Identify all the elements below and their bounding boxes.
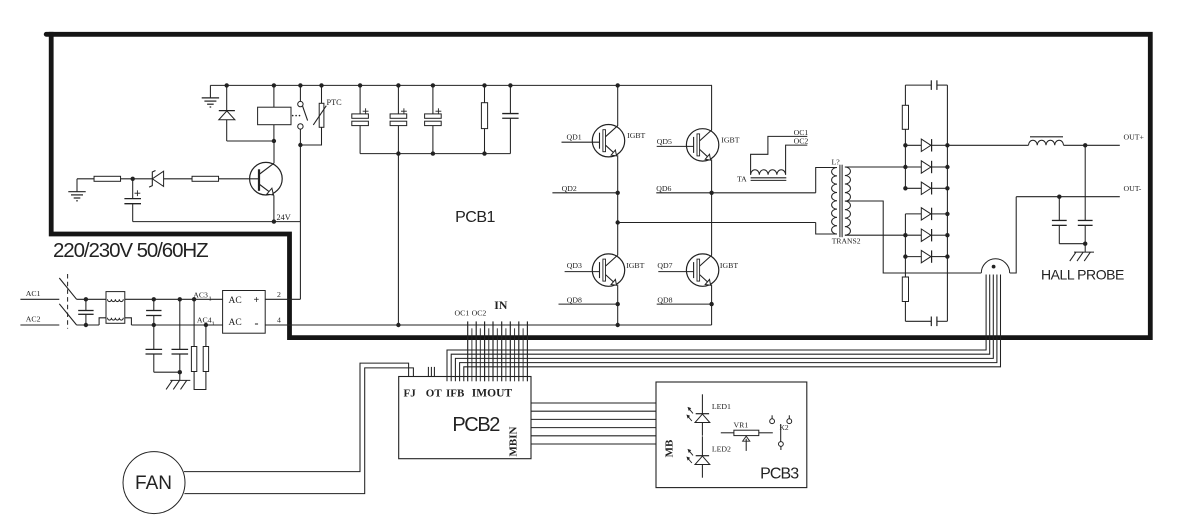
svg-text:FJ: FJ <box>404 387 417 399</box>
junction dot D5 right <box>945 212 949 216</box>
wire IN bus line 11 <box>509 321 511 381</box>
wire neg rail down to DC- bus <box>397 154 399 325</box>
wire QD3 emitter down (left leg) <box>617 285 619 325</box>
svg-text:1: 1 <box>209 296 212 303</box>
wire MBIN signal 3 <box>531 418 656 420</box>
svg-text:OC2: OC2 <box>794 137 809 146</box>
label OC1 (TA) <box>794 128 809 137</box>
svg-text:-: - <box>255 316 259 330</box>
svg-text:OC1: OC1 <box>455 309 470 318</box>
svg-text:QD2: QD2 <box>562 184 577 193</box>
wire IN bus line 6 <box>488 328 490 381</box>
wire -24V rail <box>133 221 301 223</box>
transistor QD7 (IGBT bottom-right) <box>657 254 738 286</box>
junction dot cap ground link <box>1083 242 1087 246</box>
hall probe sensor <box>981 259 1009 273</box>
svg-text:AC4: AC4 <box>197 316 212 325</box>
junction dot AC1/C13 <box>178 297 182 301</box>
wire QD5 collector to top rail corner <box>710 85 713 130</box>
svg-text:HALL PROBE: HALL PROBE <box>1041 266 1124 282</box>
svg-text:QD5: QD5 <box>657 137 672 146</box>
svg-text:TRANS2: TRANS2 <box>832 236 861 245</box>
wire main positive top rail <box>210 84 711 86</box>
label MBIN <box>508 426 520 456</box>
diode D4 <box>905 182 947 194</box>
relay contact S1 (switch with link dots) <box>292 85 308 145</box>
wire IN bus line 3 <box>475 321 477 381</box>
diode D1 (relay coil clamp) <box>219 85 274 141</box>
svg-text:OT: OT <box>426 387 443 399</box>
wire IN bus line 2 <box>471 328 473 381</box>
PTC inrush thermistor <box>300 85 326 145</box>
junction dot top rail / C4 <box>508 83 512 87</box>
svg-text:AC: AC <box>229 318 242 328</box>
capacitor C11 (X-cap 2) <box>146 299 161 325</box>
svg-text:AC1: AC1 <box>26 289 41 298</box>
junction dot left leg / DC- bus <box>616 323 620 327</box>
wire AC1 filtered line <box>125 298 223 300</box>
label IFB <box>446 387 465 399</box>
svg-text:LED1: LED1 <box>712 402 731 411</box>
label HALL PROBE <box>1041 266 1124 282</box>
label OC2 (TA) <box>794 137 809 146</box>
wire rectifier + pin 2 <box>265 290 300 300</box>
stub OT pins <box>428 367 434 377</box>
label AC4 with pin 1 <box>197 316 215 328</box>
junction dot top rail / PTC <box>319 83 323 87</box>
junction dot Y-cap ground node <box>178 370 182 374</box>
label L? <box>832 158 841 167</box>
svg-text:VR1: VR1 <box>734 420 749 429</box>
diode D2 <box>905 139 947 151</box>
ground (24V circuit earth symbol) <box>68 179 85 201</box>
svg-text:24V: 24V <box>277 213 291 222</box>
wire IN bus line 8 <box>496 328 498 381</box>
switch mechanical link (dashed) <box>67 274 69 329</box>
junction dot top rail / contact <box>298 83 302 87</box>
svg-text:FAN: FAN <box>135 473 172 494</box>
wire hall probe signal 2 <box>451 275 990 382</box>
svg-text:MB: MB <box>664 439 676 457</box>
svg-text:PCB3: PCB3 <box>760 465 799 482</box>
svg-text:IGBT: IGBT <box>626 261 644 270</box>
label AC3 with pin 1 <box>193 290 212 302</box>
bleeder resistor R3 <box>481 85 487 153</box>
capacitor C13 (Y-cap from AC1) <box>172 299 189 372</box>
resistor R6 (MOV from AC1) <box>191 299 196 371</box>
wire OUT- down to hall line <box>1010 197 1017 273</box>
label FJ <box>404 387 417 399</box>
junction dot neg rail / R3 <box>482 151 486 155</box>
label AC2 <box>26 315 41 324</box>
label IMOUT <box>472 387 513 399</box>
fan motor FAN <box>123 452 185 514</box>
wire AC2 input <box>20 324 59 326</box>
label 220/230V 50/60HZ <box>53 239 208 262</box>
wire IN bus line 10 <box>505 328 507 381</box>
resistor R1 <box>94 176 121 181</box>
junction dot contact-PTC bottom node <box>298 143 302 147</box>
svg-text:QD1: QD1 <box>567 133 582 142</box>
wire TRANS2 secondary bottom to rectifier <box>845 234 906 236</box>
transistor QD5 (IGBT top-right) <box>657 129 740 161</box>
zener diode ZD1 <box>149 171 192 188</box>
svg-text:AC2: AC2 <box>26 315 41 324</box>
diode D7 <box>905 235 947 277</box>
svg-text:OUT+: OUT+ <box>1124 133 1145 142</box>
ground (output chassis ground) <box>1070 252 1094 261</box>
wire AC2 filtered line <box>131 324 222 326</box>
switch SW1a (mains switch pole 1) <box>59 278 106 299</box>
wire hall probe signal 5 <box>464 275 1001 382</box>
wire MBIN signal 4 <box>531 427 656 429</box>
label OUT+ <box>1124 133 1145 142</box>
label TA <box>737 175 747 184</box>
inductor L1 (output choke) <box>947 137 1119 146</box>
electrolytic capacitor C3 <box>425 85 442 153</box>
junction dots C11 <box>152 297 156 327</box>
film capacitor C4 <box>502 85 518 153</box>
switch SW1b (mains switch pole 2) <box>59 304 99 325</box>
svg-text:QD7: QD7 <box>657 261 672 270</box>
junction dot top rail / R3 <box>482 83 486 87</box>
capacitor C12 (Y-cap from AC2) <box>146 325 180 372</box>
electrolytic capacitor C2 <box>390 85 407 153</box>
resistor R5 (lower snubber) <box>902 277 908 321</box>
svg-text:PCB2: PCB2 <box>452 414 500 436</box>
relay K1 coil <box>258 85 291 141</box>
svg-text:AC3: AC3 <box>193 290 208 299</box>
wire rectifier top link with capacitor C6 <box>905 80 947 90</box>
svg-text:IFB: IFB <box>446 387 465 399</box>
wire capacitor ground link <box>1059 244 1085 252</box>
svg-text:L?: L? <box>832 158 841 167</box>
label PCB3 <box>760 465 799 482</box>
junction dot relay bottom node <box>272 139 276 143</box>
label PTC <box>327 98 343 107</box>
wire rectifier right rail <box>946 85 948 321</box>
wire fan lead 2 <box>184 368 413 494</box>
wire QD1 emitter to QD3 collector (left leg) <box>617 155 619 255</box>
junction dots D3 <box>903 165 949 169</box>
label OUT- <box>1124 184 1142 193</box>
svg-text:+: + <box>254 295 260 306</box>
svg-text:4: 4 <box>277 316 281 325</box>
label PCB1 <box>455 209 495 226</box>
svg-text:PCB1: PCB1 <box>455 209 495 226</box>
label TRANS2 <box>832 236 861 245</box>
junction dot OUT- / C8 <box>1057 195 1061 199</box>
junction dot -24V node <box>272 219 276 223</box>
svg-text:OC1: OC1 <box>794 128 809 137</box>
junction dot OUT+ / C9 <box>1083 143 1087 147</box>
label OC2 (bus) <box>472 309 487 318</box>
junction dots D4 <box>903 186 949 190</box>
junction dots D6 <box>903 233 949 237</box>
junction dot top rail / C1 <box>358 83 362 87</box>
junction dots D7 <box>903 254 949 258</box>
resistor R7 (MOV from AC2) <box>203 325 208 372</box>
wire IN bus line 4 <box>479 328 481 381</box>
svg-text:IGBT: IGBT <box>720 261 738 270</box>
svg-text:IN: IN <box>494 298 508 312</box>
junction dot right leg / QD8 <box>709 302 713 306</box>
wire rectifier - pin 4 (DC- bus) <box>265 316 711 326</box>
svg-text:QD8: QD8 <box>567 295 582 304</box>
junction dot left leg output <box>616 220 620 224</box>
svg-text:LED2: LED2 <box>712 445 731 454</box>
svg-text:MBIN: MBIN <box>508 426 520 456</box>
wire IN bus line 15 <box>526 321 528 381</box>
wire MBIN signal 1 <box>531 402 656 404</box>
junction dot AC1/R6 <box>192 297 196 301</box>
stub QD8 right with label <box>657 295 712 304</box>
junction dot AC2/R7 <box>204 323 208 327</box>
wire R2 to Q1 base <box>219 178 259 180</box>
label -24V <box>277 213 291 222</box>
wire MBIN signal 2 <box>531 410 656 412</box>
junction dot neg rail / C2 <box>396 151 400 155</box>
label OT <box>426 387 443 399</box>
wire QD1 collector to top rail <box>617 85 619 126</box>
wire TRANS2 secondary top to rectifier <box>845 166 906 168</box>
junction dot top rail / C3 <box>431 83 435 87</box>
stub QD2 with label <box>552 184 617 193</box>
transistor Q1 (24V regulator) <box>250 141 283 222</box>
junction dots C10 <box>84 297 88 327</box>
svg-text:K2: K2 <box>780 423 789 432</box>
diode D3 <box>905 161 947 173</box>
svg-text:OC2: OC2 <box>472 309 487 318</box>
current transformer TA <box>751 136 808 180</box>
stub QD8 left with label <box>559 295 618 304</box>
junction dot top rail / QD1 <box>616 83 620 87</box>
capacitor C8 <box>1052 197 1067 244</box>
wire R1 to zener node <box>121 178 152 180</box>
svg-text:220/230V 50/60HZ: 220/230V 50/60HZ <box>53 239 208 262</box>
common-mode choke T1 <box>99 292 131 325</box>
resistor R2 <box>192 176 219 181</box>
LED LED1 <box>686 394 731 435</box>
svg-text:IGBT: IGBT <box>627 131 645 140</box>
wire IN bus line 12 <box>514 328 516 381</box>
svg-text:AC: AC <box>229 296 242 306</box>
diode D6 <box>905 229 947 241</box>
transistor QD3 (IGBT bottom-left) <box>565 254 645 286</box>
wire right-leg output to TRANS2 primary top <box>712 168 837 193</box>
capacitor C10 (X-cap across mains) <box>78 299 93 325</box>
wire hall probe signal 1 <box>447 275 986 382</box>
junction dot top rail / relay <box>272 83 276 87</box>
wire hall probe signal 3 <box>455 275 993 382</box>
transformer TRANS2 core <box>840 165 842 238</box>
wire IN bus line 9 <box>501 321 503 381</box>
junction dots D2 <box>903 143 949 147</box>
label PCB2 <box>452 414 500 436</box>
wire rectifier bottom link with capacitor C7 <box>905 317 947 327</box>
rectifier module U1 (AC-DC) <box>223 291 266 334</box>
wire MBIN signal 6 <box>531 443 656 445</box>
wire R6-R7 bottom link <box>194 372 206 390</box>
transformer TRANS2 secondary winding <box>845 167 851 235</box>
wire IN bus line 13 <box>518 321 520 381</box>
junction dot zener node <box>131 177 135 181</box>
wire IN bus line 7 <box>492 321 494 381</box>
diode D5 <box>905 208 947 236</box>
PCB1 module border (thick outline) <box>46 34 1150 337</box>
wire TRANS2 center tap <box>845 201 981 273</box>
capacitor C9 <box>1078 145 1093 243</box>
wire fan lead 1 <box>184 363 409 472</box>
potentiometer VR1 <box>721 420 773 451</box>
wire ground to resistor R1 <box>77 178 94 180</box>
wire IN bus line 5 <box>484 321 486 381</box>
ground (top-left earth symbol) <box>202 85 219 107</box>
svg-text:QD3: QD3 <box>567 261 582 270</box>
junction dot DC- / cap bank riser <box>396 323 400 327</box>
wire PTC node to rectifier + pin <box>299 145 301 299</box>
ground (mains chassis ground) <box>166 372 190 389</box>
wire left-leg output to TRANS2 primary bottom <box>618 223 837 235</box>
svg-text:QD8: QD8 <box>657 295 672 304</box>
junction dot top rail / C2 <box>396 83 400 87</box>
label IN <box>494 298 508 312</box>
label AC1 <box>26 289 41 298</box>
stub QD6 with label <box>656 184 711 193</box>
switch K2 <box>770 415 792 450</box>
wire OUT- line <box>1016 196 1120 198</box>
wire IN bus line 1 <box>467 321 469 381</box>
svg-text:TA: TA <box>737 175 747 184</box>
resistor R4 (upper snubber) <box>902 85 908 188</box>
transistor QD1 (IGBT top-left) <box>562 125 646 157</box>
wire QD5 emitter to QD7 collector (right leg) <box>711 159 713 255</box>
svg-text:QD6: QD6 <box>656 184 671 193</box>
junction dot neg rail / C3 <box>431 151 435 155</box>
wire QD7 emitter down (right leg) <box>711 285 713 325</box>
svg-text:IMOUT: IMOUT <box>472 387 513 399</box>
wire IN bus line 14 <box>522 328 524 381</box>
svg-text:1: 1 <box>212 321 215 328</box>
label OC1 (bus) <box>455 309 470 318</box>
junction dot left leg / QD2 <box>616 191 620 195</box>
wire hall probe signal 4 <box>460 275 997 382</box>
label MB <box>664 439 676 457</box>
junction dot top rail / diode <box>225 83 229 87</box>
wire capacitor-bank negative rail <box>360 153 510 155</box>
capacitor C5 (24V filter) <box>124 179 141 222</box>
junction dot left leg / QD8 <box>616 302 620 306</box>
PCB2 board outline <box>399 377 531 459</box>
transformer TRANS2 primary winding <box>832 168 837 235</box>
svg-text:IGBT: IGBT <box>721 135 739 144</box>
svg-text:OUT-: OUT- <box>1124 184 1142 193</box>
PCB3 board outline <box>656 382 807 488</box>
junction dot right leg / QD6 <box>709 191 713 195</box>
svg-text:2: 2 <box>277 290 281 299</box>
LED LED2 <box>686 436 731 477</box>
wire MBIN signal 5 <box>531 435 656 437</box>
svg-text:PTC: PTC <box>327 98 343 107</box>
electrolytic capacitor C1 <box>352 85 369 153</box>
wire AC1 input <box>20 298 59 300</box>
